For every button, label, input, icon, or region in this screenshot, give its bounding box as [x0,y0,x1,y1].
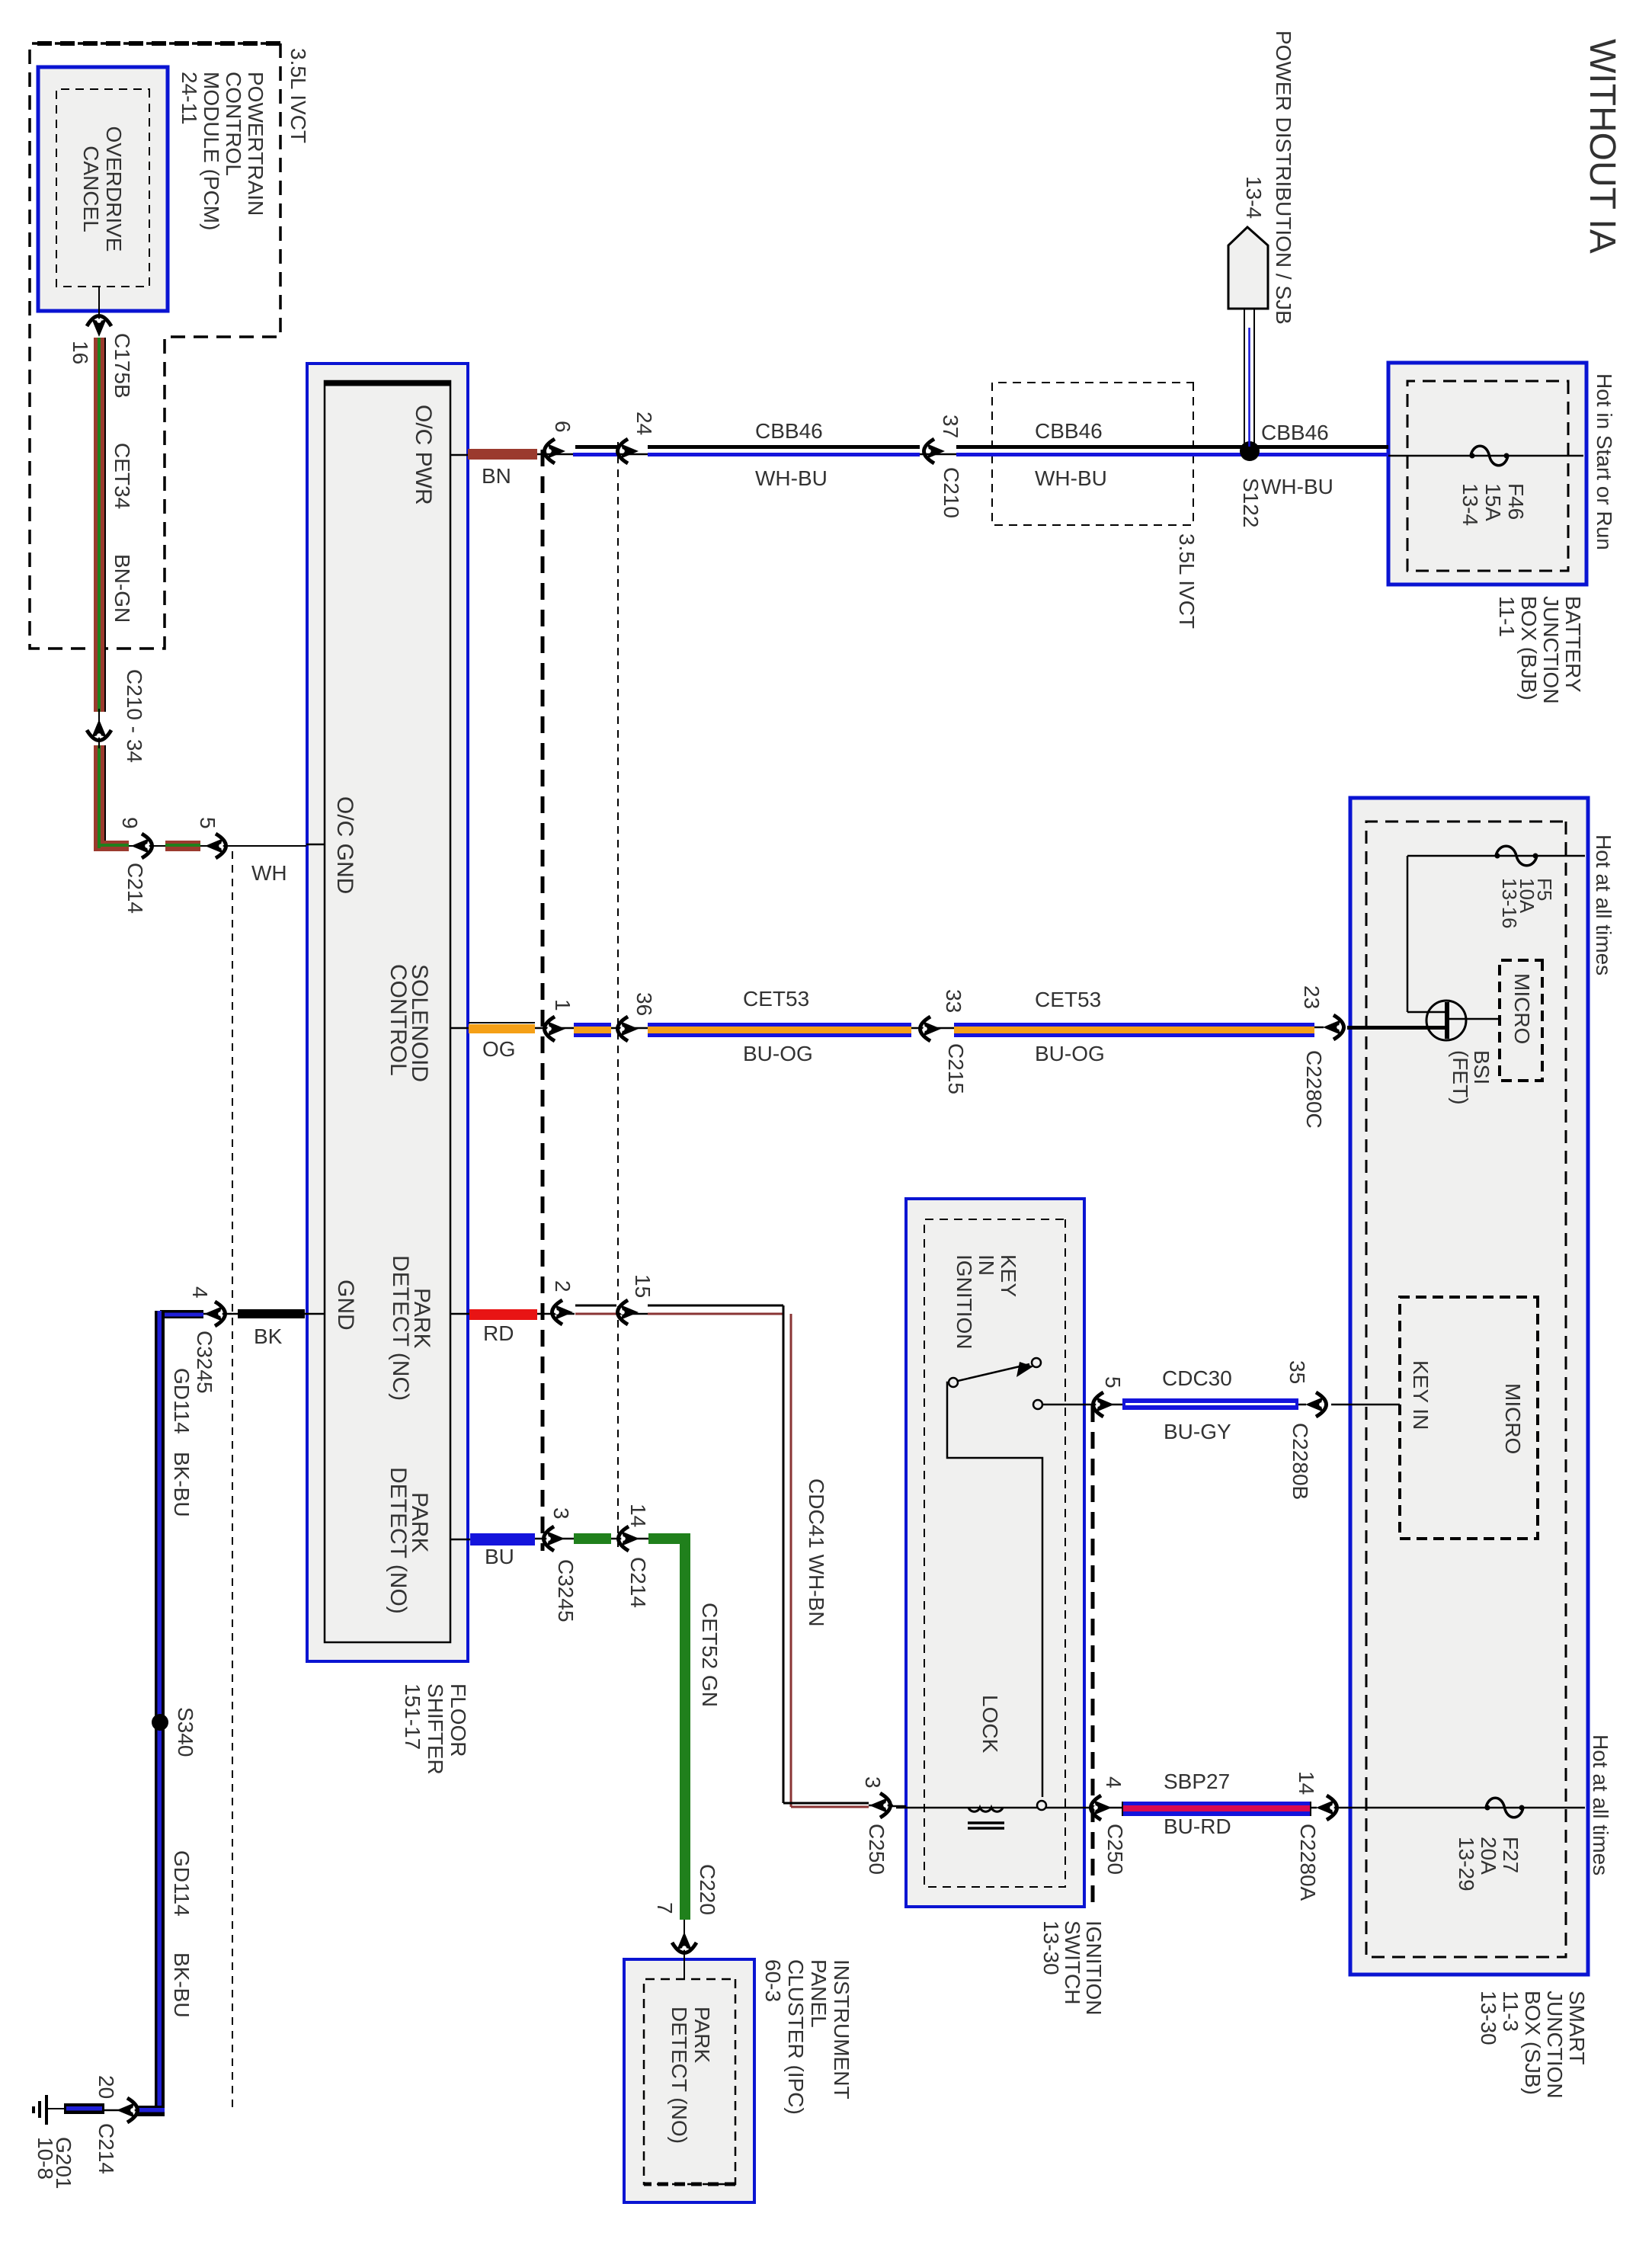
svg-text:MICRO: MICRO [1501,1383,1525,1454]
svg-text:BN: BN [482,464,511,488]
svg-text:WH-BU: WH-BU [1035,466,1107,490]
svg-text:GND: GND [333,1280,358,1331]
svg-text:2: 2 [551,1280,575,1292]
svg-text:C175B: C175B [110,333,134,399]
svg-text:MICRO: MICRO [1510,973,1534,1044]
svg-text:O/C PWR: O/C PWR [411,405,436,505]
svg-text:BN-GN: BN-GN [110,554,134,623]
svg-text:C214: C214 [94,2123,118,2174]
svg-text:INSTRUMENTPANELCLUSTER (IPC)60: INSTRUMENTPANELCLUSTER (IPC)60-3 [761,1959,853,2115]
svg-text:DETECT (NO): DETECT (NO) [386,1467,411,1614]
svg-text:BU: BU [485,1545,514,1568]
svg-text:S340: S340 [174,1707,197,1757]
svg-text:C214: C214 [626,1557,650,1608]
svg-text:CET53: CET53 [1035,988,1101,1011]
svg-text:GD114: GD114 [170,1368,194,1434]
svg-text:13-4: 13-4 [1242,176,1266,219]
svg-text:4: 4 [1102,1776,1125,1789]
svg-text:C250: C250 [1103,1824,1127,1875]
svg-text:CET52 GN: CET52 GN [698,1603,722,1707]
svg-text:16: 16 [69,341,92,364]
svg-text:4: 4 [188,1286,212,1299]
svg-text:35: 35 [1285,1360,1309,1384]
svg-text:RD: RD [483,1321,514,1345]
svg-text:Hot at all times: Hot at all times [1592,834,1615,975]
svg-text:7: 7 [653,1902,677,1914]
svg-text:KEY IN: KEY IN [1409,1360,1433,1430]
svg-text:3.5L IVCT: 3.5L IVCT [1175,533,1199,629]
svg-text:CDC41 WH-BN: CDC41 WH-BN [805,1478,828,1626]
svg-text:CET53: CET53 [743,987,809,1011]
svg-text:BU-OG: BU-OG [1035,1042,1105,1065]
svg-text:C2280A: C2280A [1296,1824,1320,1901]
svg-text:6: 6 [551,421,575,433]
svg-text:CBB46: CBB46 [755,419,823,443]
svg-text:SBP27: SBP27 [1164,1770,1230,1793]
svg-text:CBB46: CBB46 [1261,421,1329,444]
svg-text:5: 5 [1101,1376,1125,1389]
svg-text:3: 3 [549,1507,573,1520]
svg-text:C250: C250 [865,1824,888,1875]
svg-text:WITHOUT IA: WITHOUT IA [1582,39,1622,254]
svg-text:Hot at all times: Hot at all times [1589,1734,1612,1875]
svg-text:O/C GND: O/C GND [332,796,357,894]
svg-text:24: 24 [632,412,656,435]
svg-text:G20110-8: G20110-8 [34,2137,75,2189]
svg-text:20: 20 [94,2075,118,2099]
svg-text:C220: C220 [696,1864,719,1915]
svg-text:WH: WH [251,861,287,885]
svg-text:OG: OG [482,1037,516,1061]
svg-text:LOCK: LOCK [978,1695,1002,1754]
svg-text:1: 1 [551,999,575,1011]
svg-text:GD114: GD114 [170,1850,194,1917]
svg-text:36: 36 [632,992,656,1016]
svg-text:CBB46: CBB46 [1035,419,1103,443]
svg-text:F4615A13-4: F4615A13-4 [1458,483,1528,526]
svg-text:3.5L IVCT: 3.5L IVCT [287,48,310,143]
svg-text:BU-RD: BU-RD [1164,1815,1231,1838]
svg-text:3: 3 [861,1776,885,1789]
svg-text:C2280C: C2280C [1302,1050,1326,1129]
svg-text:BK-BU: BK-BU [170,1452,194,1517]
svg-text:C3245: C3245 [193,1331,216,1394]
svg-text:FLOORSHIFTER151-17: FLOORSHIFTER151-17 [401,1683,470,1775]
svg-text:S122: S122 [1239,478,1263,527]
svg-text:14: 14 [1295,1771,1318,1795]
svg-text:15: 15 [631,1274,655,1298]
svg-text:5: 5 [196,817,219,829]
svg-text:BATTERYJUNCTIONBOX (BJB)11-1: BATTERYJUNCTIONBOX (BJB)11-1 [1495,596,1585,704]
svg-text:BU-OG: BU-OG [743,1042,813,1065]
svg-text:33: 33 [942,989,965,1013]
svg-text:BK-BU: BK-BU [170,1952,194,2018]
svg-text:BU-GY: BU-GY [1164,1420,1231,1443]
svg-text:BK: BK [254,1324,283,1348]
svg-text:POWER DISTRIBUTION / SJB: POWER DISTRIBUTION / SJB [1272,30,1295,325]
svg-text:14: 14 [626,1504,650,1527]
svg-text:WH-BU: WH-BU [755,466,828,490]
svg-text:C210 - 34: C210 - 34 [123,669,146,763]
svg-text:SMARTJUNCTIONBOX (SJB)11-313-3: SMARTJUNCTIONBOX (SJB)11-313-30 [1477,1991,1589,2099]
svg-text:C2280B: C2280B [1289,1423,1312,1500]
svg-text:37: 37 [939,415,962,438]
svg-text:WH-BU: WH-BU [1261,475,1333,498]
svg-text:9: 9 [118,817,142,829]
svg-text:IGNITIONSWITCH13-30: IGNITIONSWITCH13-30 [1039,1920,1106,2015]
svg-text:C215: C215 [944,1043,968,1094]
svg-text:SOLENOIDCONTROL: SOLENOIDCONTROL [386,964,432,1082]
svg-text:CDC30: CDC30 [1162,1366,1232,1390]
svg-text:C210: C210 [940,467,963,518]
svg-text:C214: C214 [123,863,147,914]
svg-text:C3245: C3245 [554,1559,578,1622]
svg-text:Hot in Start or Run: Hot in Start or Run [1593,373,1616,550]
svg-text:23: 23 [1300,985,1324,1009]
svg-text:POWERTRAINCONTROLMODULE (PCM)2: POWERTRAINCONTROLMODULE (PCM)24-11 [178,72,267,230]
svg-text:CET34: CET34 [110,443,134,509]
svg-text:DETECT (NC): DETECT (NC) [388,1255,413,1401]
